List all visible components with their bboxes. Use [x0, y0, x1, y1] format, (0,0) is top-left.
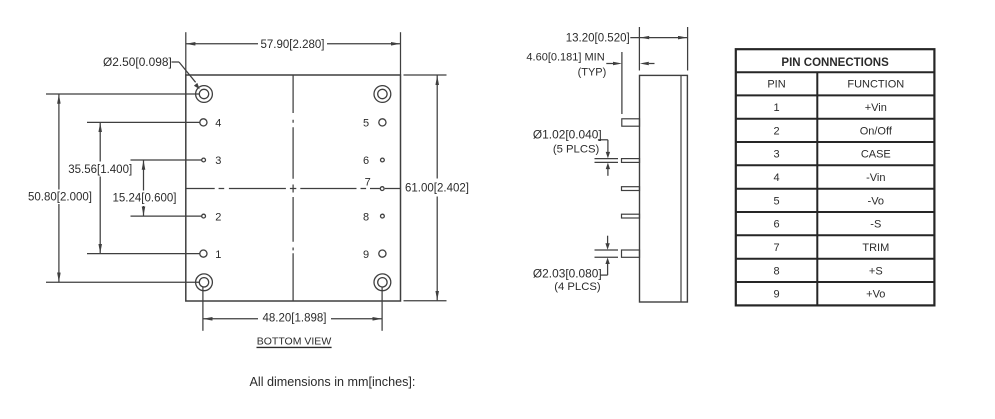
svg-text:CASE: CASE [861, 149, 891, 161]
mounting hole top-right [374, 86, 391, 103]
pin label 7 [365, 177, 371, 189]
dimension 57.90 top [186, 32, 401, 74]
table rows [773, 102, 892, 301]
svg-text:13.20[0.520]: 13.20[0.520] [566, 33, 630, 45]
pin 6 [381, 158, 385, 162]
dimension 15.24 [131, 160, 202, 216]
table row lines [736, 72, 935, 282]
pin 2 [202, 214, 206, 218]
svg-text:15.24[0.600]: 15.24[0.600] [113, 192, 177, 204]
svg-text:Ø2.50[0.098]: Ø2.50[0.098] [103, 55, 172, 69]
svg-text:+Vo: +Vo [866, 289, 885, 301]
pin label 1 [215, 249, 221, 261]
dimension 4.60 MIN [606, 63, 654, 65]
svg-text:Ø1.02[0.040]: Ø1.02[0.040] [533, 128, 602, 142]
svg-text:48.20[1.898]: 48.20[1.898] [263, 313, 327, 325]
module body outline (bottom view) [186, 75, 401, 301]
1.02 down arrowhead [606, 152, 610, 159]
dimension 48.20 bottom [203, 287, 382, 331]
pin label 5 [363, 118, 369, 130]
svg-text:TRIM: TRIM [862, 242, 889, 254]
dimension 50.80 left [46, 94, 199, 282]
table title [781, 57, 889, 69]
svg-text:1: 1 [215, 249, 221, 261]
svg-text:BOTTOM VIEW: BOTTOM VIEW [257, 336, 332, 348]
svg-text:7: 7 [365, 177, 371, 189]
dimension 13.20 [630, 27, 687, 71]
pin 8 [381, 214, 385, 218]
pin thickness 2.03 measurement [595, 236, 619, 275]
svg-text:35.56[1.400]: 35.56[1.400] [68, 164, 132, 176]
side pin tab row 1/9 [622, 250, 640, 257]
svg-text:57.90[2.280]: 57.90[2.280] [261, 39, 325, 51]
svg-text:5: 5 [363, 118, 369, 130]
mounting hole bottom-right [374, 274, 391, 291]
svg-text:6: 6 [363, 155, 369, 167]
svg-text:6: 6 [773, 219, 779, 231]
dimension 35.56 [87, 122, 200, 253]
table header FUNCTION [847, 79, 904, 91]
horizontal centerline [186, 188, 401, 190]
table outer border [736, 49, 935, 305]
svg-text:1: 1 [773, 102, 779, 114]
side view body [640, 75, 688, 302]
svg-text:5: 5 [773, 195, 779, 207]
pin label 9 [363, 249, 369, 261]
pin label 2 [215, 211, 221, 223]
svg-text:3: 3 [215, 155, 221, 167]
pin label 6 [363, 155, 369, 167]
hole diameter callout [172, 62, 196, 82]
pin label 4 [215, 118, 221, 130]
pin 7 [380, 187, 384, 191]
svg-text:PIN CONNECTIONS: PIN CONNECTIONS [781, 57, 889, 69]
svg-text:(4 PLCS): (4 PLCS) [554, 281, 601, 293]
pin 9 [379, 250, 386, 257]
table header PIN [767, 79, 785, 91]
svg-text:All dimensions in mm[inches]:: All dimensions in mm[inches]: [250, 375, 416, 389]
svg-text:-S: -S [870, 219, 881, 231]
svg-text:+S: +S [869, 265, 883, 277]
2.03 up arrowhead [605, 258, 609, 265]
pin thickness 1.02 measurement [595, 140, 619, 176]
pin 3 [202, 158, 206, 162]
svg-text:7: 7 [773, 242, 779, 254]
4.60 left-pointing arrowhead [640, 62, 649, 65]
svg-text:On/Off: On/Off [860, 125, 893, 137]
svg-text:PIN: PIN [767, 79, 785, 91]
side view inner edge line [680, 75, 682, 302]
pin label 8 [363, 211, 369, 223]
svg-text:9: 9 [363, 249, 369, 261]
side pin tab row 2/8 [622, 214, 640, 218]
svg-text:-Vin: -Vin [866, 172, 885, 184]
svg-text:8: 8 [773, 265, 779, 277]
svg-text:-Vo: -Vo [868, 195, 885, 207]
svg-text:3: 3 [773, 149, 779, 161]
svg-text:9: 9 [773, 289, 779, 301]
1.02 up arrowhead [606, 163, 610, 170]
svg-text:50.80[2.000]: 50.80[2.000] [28, 191, 92, 203]
svg-text:4.60[0.181] MIN: 4.60[0.181] MIN [526, 52, 604, 64]
13.20 left arrowhead [640, 36, 649, 39]
svg-text:FUNCTION: FUNCTION [847, 79, 904, 91]
side pin tab row 7 [622, 187, 640, 191]
mounting hole bottom-left [196, 274, 213, 291]
table column divider [816, 72, 818, 305]
note: all dimensions [250, 375, 416, 389]
svg-text:Ø2.03[0.080]: Ø2.03[0.080] [533, 267, 602, 281]
svg-text:(TYP): (TYP) [578, 67, 607, 79]
svg-text:2: 2 [215, 211, 221, 223]
callout arrowhead [194, 83, 200, 89]
svg-text:4: 4 [773, 172, 779, 184]
pin 5 [379, 119, 386, 126]
vertical centerline [292, 75, 294, 301]
side pin tab row 3/6 [622, 159, 640, 163]
dimension 61.00 right [404, 75, 447, 301]
BOTTOM VIEW label [257, 336, 332, 348]
2.03 down arrowhead [605, 243, 609, 250]
svg-text:8: 8 [363, 211, 369, 223]
pin label 3 [215, 155, 221, 167]
pin 1 [200, 250, 207, 257]
svg-text:+Vin: +Vin [865, 102, 887, 114]
4.60 right-pointing arrowhead [613, 62, 622, 65]
svg-text:4: 4 [215, 118, 221, 130]
svg-text:2: 2 [773, 125, 779, 137]
pin 4 [200, 119, 207, 126]
side pin tab row 4/5 [622, 119, 640, 126]
mounting hole top-left [196, 86, 213, 103]
pin tip plane line [621, 52, 623, 114]
svg-text:(5 PLCS): (5 PLCS) [553, 144, 600, 156]
svg-text:61.00[2.402]: 61.00[2.402] [405, 183, 469, 195]
